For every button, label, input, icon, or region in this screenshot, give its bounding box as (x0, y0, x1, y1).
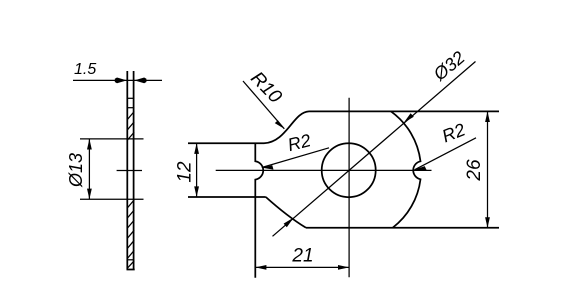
svg-text:Ø13: Ø13 (66, 153, 86, 188)
svg-text:26: 26 (464, 159, 485, 182)
svg-text:R10: R10 (246, 68, 286, 108)
svg-text:12: 12 (175, 161, 196, 183)
svg-text:R2: R2 (439, 119, 468, 146)
svg-text:21: 21 (291, 246, 313, 267)
svg-text:Ø32: Ø32 (429, 47, 469, 85)
svg-text:R2: R2 (286, 130, 313, 155)
svg-text:1.5: 1.5 (74, 61, 96, 78)
